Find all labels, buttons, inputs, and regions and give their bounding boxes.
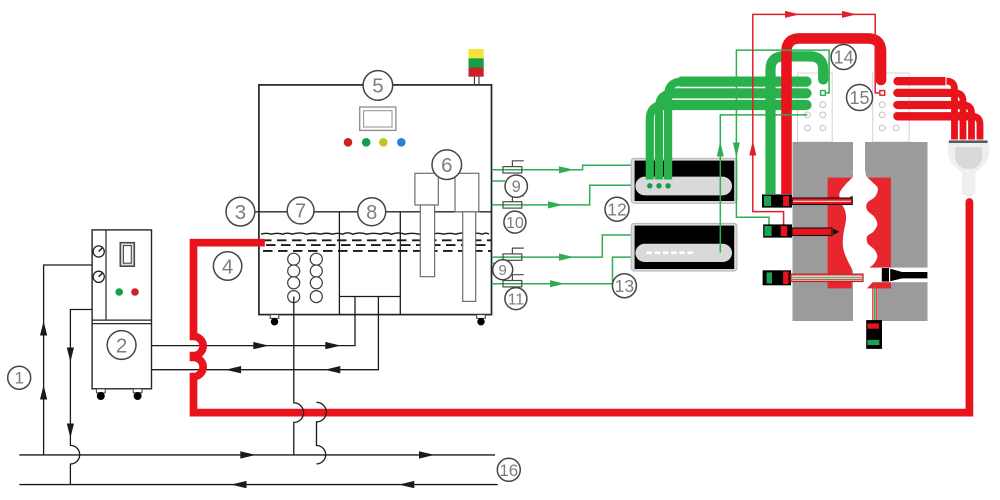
wire green W3	[492, 235, 636, 261]
svg-text:1: 1	[14, 369, 23, 388]
heater E2 head	[455, 173, 479, 212]
mold clamp plate left	[798, 73, 833, 142]
svg-text:8: 8	[366, 202, 377, 224]
mold block right	[865, 142, 928, 321]
node label 16	[497, 458, 520, 481]
probe row3 striped heater	[791, 274, 863, 281]
bubbles	[288, 253, 323, 302]
pipe red injection hose 2 corner+vertical	[955, 93, 963, 140]
node label 6	[432, 150, 462, 180]
wire tank drain 1 hop over red	[294, 297, 304, 455]
wire chiller return with down arrows and hop	[67, 310, 92, 485]
node label 13	[612, 274, 636, 298]
mold sprue channel bottom white	[855, 288, 878, 321]
node label 9a	[505, 175, 527, 197]
pipe green hose C corner+vertical	[650, 105, 664, 180]
pipe red injection hose 1 corner+vertical	[947, 81, 955, 139]
svg-text:11: 11	[508, 291, 525, 308]
chiller gauge 1	[93, 246, 104, 257]
tank pump box	[339, 212, 400, 315]
node label 2	[107, 331, 136, 360]
svg-text:5: 5	[372, 75, 383, 98]
mold clamp plate right	[873, 73, 910, 142]
svg-text:9: 9	[512, 178, 521, 196]
controller U12	[631, 158, 737, 203]
node label 9b	[493, 260, 513, 280]
svg-text:15: 15	[849, 88, 869, 108]
tank display	[360, 107, 396, 130]
mold block left	[793, 142, 854, 321]
wire chiller to tank supply	[152, 297, 356, 350]
wire thin red loop	[749, 11, 884, 226]
node label 5	[363, 71, 393, 101]
svg-text:2: 2	[116, 334, 127, 357]
sprue sensor wire cluster	[873, 287, 877, 340]
wire green stub 9a	[492, 180, 505, 182]
wire green W1	[492, 161, 634, 174]
node label 10	[504, 211, 526, 233]
mold parting gap	[853, 142, 865, 321]
wire green W2	[492, 185, 636, 208]
chiller wheel right	[133, 389, 142, 400]
heater E1 tube	[420, 205, 434, 277]
mold cavity plate right red	[865, 178, 891, 289]
pipe green hose end caps	[801, 77, 811, 111]
mold connector row1	[762, 194, 792, 207]
wire tank drain 2 double hop	[317, 402, 327, 464]
water surface wavy line	[261, 233, 489, 234]
lower mold connector	[866, 320, 882, 349]
heater E1 head	[415, 173, 438, 205]
node label 4	[213, 252, 241, 280]
injection nozzle black	[882, 268, 928, 282]
pipe green hose B horizontal	[670, 88, 806, 98]
probe row1 cartridge heater	[792, 196, 853, 205]
pipe green hose A horizontal	[679, 76, 806, 86]
controller U13	[631, 223, 737, 271]
wire green stub 9b	[492, 262, 500, 264]
water dashed lines	[262, 240, 491, 251]
mold nozzle channel white	[868, 268, 927, 283]
tank indicator lights	[344, 138, 406, 147]
pipe red injection hose 1 horizontal	[898, 77, 946, 85]
node label 11	[505, 288, 527, 310]
molded part white blob	[839, 172, 878, 290]
svg-text:13: 13	[615, 276, 634, 296]
node label 14	[831, 45, 856, 70]
svg-text:9: 9	[499, 262, 507, 279]
chiller body	[92, 230, 151, 389]
pipe red injection hose 4 corner+vertical	[972, 116, 980, 139]
svg-text:10: 10	[506, 215, 524, 232]
wire tank to chiller return	[152, 297, 379, 374]
chiller wheel left	[96, 389, 105, 400]
mold cavity plate left red	[828, 178, 852, 289]
mold connector row3	[763, 270, 791, 285]
pipe red injection hose 3 horizontal	[898, 101, 963, 109]
svg-text:6: 6	[441, 154, 452, 177]
pipe hot water loop 4 thick red	[194, 203, 970, 413]
pipe green hose B corner+vertical	[659, 93, 673, 179]
wire thin green to controller13	[717, 115, 808, 253]
tank wheel left	[270, 315, 279, 326]
wire main supply line bottom right arrows	[19, 451, 495, 458]
svg-text:4: 4	[222, 255, 233, 278]
red band below sprue bushing	[860, 284, 891, 289]
mold connector row2	[763, 224, 792, 237]
pipe red injection hose 2 horizontal	[898, 89, 955, 97]
tank inner lid line	[255, 211, 492, 213]
controller U12 green dots	[647, 183, 671, 188]
svg-text:14: 14	[834, 47, 854, 67]
signal tower	[469, 49, 484, 86]
node label 12	[605, 197, 629, 221]
node label 8	[358, 198, 386, 226]
injection funnel manifold	[948, 140, 989, 196]
pipe red mold hose label14	[787, 38, 882, 194]
pipe red hose end caps	[893, 77, 901, 120]
svg-text:12: 12	[607, 199, 626, 219]
node label 1	[8, 366, 31, 389]
pipe red loop end cap	[966, 198, 974, 206]
heater E2 tube	[463, 212, 476, 302]
chiller gauge 2	[93, 271, 104, 282]
wire chiller suction with up arrows	[40, 265, 92, 455]
svg-text:16: 16	[499, 461, 518, 480]
wire main return line bottom left arrows	[19, 481, 498, 488]
pipe green mold hose label14	[771, 56, 824, 194]
svg-text:3: 3	[235, 201, 246, 224]
node label 3	[226, 197, 255, 226]
chiller display	[120, 243, 134, 267]
pipe red injection hose 4 horizontal	[898, 112, 972, 120]
pipe red injection hose 3 corner+vertical	[964, 105, 972, 140]
wire thin green loop	[733, 50, 829, 226]
pipe green hose A corner+vertical	[668, 82, 682, 180]
node label 15	[847, 85, 873, 111]
wire green W4	[492, 257, 636, 287]
chiller lights	[115, 288, 138, 296]
tank wheel right	[477, 315, 486, 326]
tank body	[259, 85, 492, 315]
probe row2 sensor with tip	[792, 228, 840, 236]
svg-text:7: 7	[295, 201, 306, 223]
node label 7	[287, 197, 314, 224]
pipe green hose C horizontal	[661, 100, 807, 110]
